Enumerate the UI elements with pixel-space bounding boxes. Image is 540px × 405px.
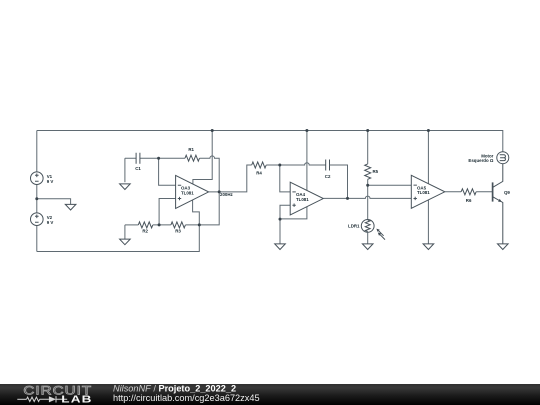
svg-text:C1: C1	[135, 166, 141, 171]
svg-text:R3: R3	[175, 229, 181, 234]
svg-text:TL081: TL081	[296, 197, 309, 202]
svg-text:R2: R2	[142, 229, 148, 234]
svg-text:R1: R1	[188, 147, 194, 152]
svg-text:OA4: OA4	[296, 192, 306, 197]
svg-text:R5: R5	[373, 169, 379, 174]
svg-text:NilsonNF / Projeto_2_2022_2: NilsonNF / Projeto_2_2022_2	[113, 384, 236, 394]
svg-text:Motor: Motor	[481, 153, 493, 158]
svg-text:Esquerdo Ω: Esquerdo Ω	[468, 158, 493, 163]
svg-text:LDR1: LDR1	[348, 223, 360, 228]
svg-text:R4: R4	[256, 170, 262, 175]
svg-text:9 V: 9 V	[47, 179, 54, 184]
svg-text:LAB: LAB	[61, 393, 92, 405]
svg-text:Q9: Q9	[504, 190, 510, 195]
svg-text:V1: V1	[47, 174, 53, 179]
svg-text:OA3: OA3	[181, 186, 191, 191]
svg-text:http://circuitlab.com/cg2e3a67: http://circuitlab.com/cg2e3a672zx45	[113, 393, 260, 403]
svg-text:R6: R6	[466, 198, 472, 203]
svg-text:C2: C2	[325, 174, 331, 179]
svg-text:TL081: TL081	[417, 190, 430, 195]
svg-text:V2: V2	[47, 215, 53, 220]
svg-text:200Hz: 200Hz	[220, 192, 233, 197]
svg-text:TL081: TL081	[181, 191, 194, 196]
svg-text:9 V: 9 V	[47, 220, 54, 225]
